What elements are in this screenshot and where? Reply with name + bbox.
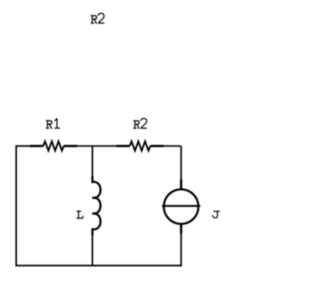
node label R2 (floating text at top) (91, 13, 105, 23)
resistor R2 (117, 141, 164, 150)
bar (162, 205, 200, 207)
label J (213, 211, 220, 218)
wire bottom (15, 265, 181, 267)
wire middle upper (91, 146, 93, 178)
label R1 (46, 118, 60, 128)
label R2 (133, 118, 147, 128)
current source J (162, 180, 200, 234)
label L (77, 211, 83, 219)
wire right lower (180, 234, 182, 267)
wire top left segment (16, 145, 30, 147)
wire left vertical (15, 145, 17, 266)
wire right upper (180, 146, 182, 180)
inductor L (92, 176, 100, 236)
lead bottom (180, 224, 182, 234)
wire middle lower (91, 234, 93, 266)
wire top right segment (164, 145, 182, 147)
resistor R1 (30, 141, 77, 150)
circle (164, 189, 199, 224)
lead top (180, 180, 182, 190)
wire top middle segment (77, 145, 117, 147)
